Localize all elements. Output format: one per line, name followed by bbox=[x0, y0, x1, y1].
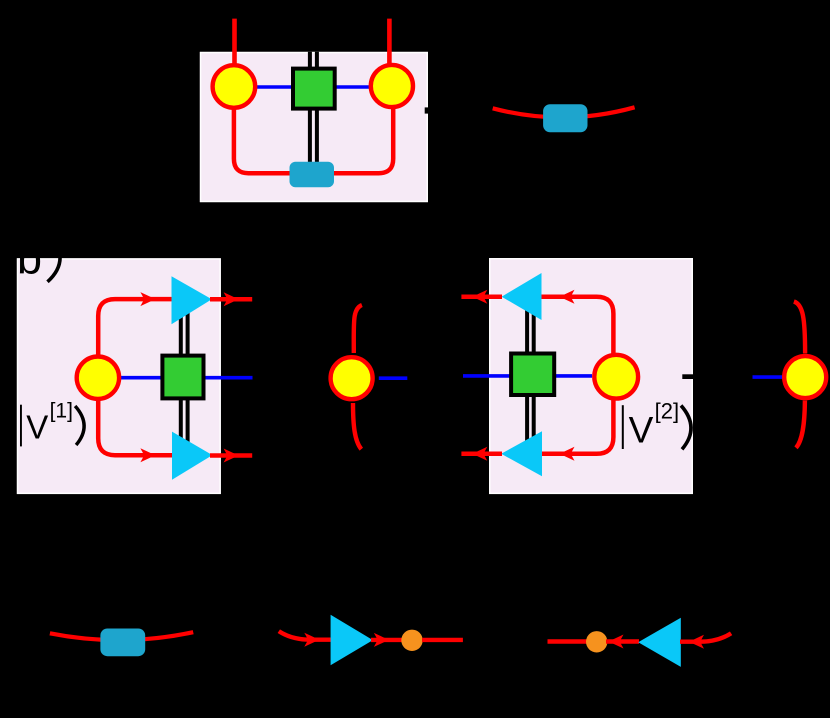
wire red bottom loop bbox=[234, 100, 393, 173]
c-left red arc bbox=[50, 632, 193, 640]
wire red top stub left bbox=[232, 19, 237, 70]
wire black double vertical bbox=[525, 308, 529, 450]
label |V[2]> : bar bbox=[622, 405, 624, 449]
wire red s-curve top bbox=[794, 302, 805, 354]
cyan triangle left-pointing bbox=[638, 618, 681, 667]
yellow circle tensor bbox=[594, 355, 638, 399]
svg-text:V: V bbox=[26, 409, 48, 446]
yellow circle tensor bbox=[77, 357, 119, 399]
wire blue horizontal bbox=[98, 376, 253, 380]
panel b2 (pink box) bbox=[489, 258, 693, 494]
equation right of a: red arc bbox=[493, 107, 635, 117]
svg-text:[2]: [2] bbox=[655, 398, 679, 423]
yellow circle tensor left bbox=[213, 65, 256, 108]
panel a (pink box) bbox=[200, 52, 428, 202]
wire red s-curve top bbox=[354, 305, 362, 353]
arrowhead right tip to dot bbox=[374, 633, 389, 647]
arrowhead left dot to triangle bbox=[609, 635, 624, 649]
green square tensor bbox=[162, 356, 203, 399]
label |V[1]> : paren bbox=[75, 406, 84, 445]
cyan triangle top (left-pointing) bbox=[502, 273, 542, 320]
arrowhead right on top curve bbox=[140, 292, 155, 306]
cyan triangle right-pointing bbox=[331, 615, 373, 666]
wire black double vertical bbox=[179, 300, 183, 456]
wire red dot to triangle bbox=[606, 639, 639, 643]
wire red out of dot bbox=[422, 638, 463, 642]
equation right of a: cyan rounded box bbox=[543, 104, 587, 132]
wire blue into panel bbox=[463, 374, 592, 378]
yellow circle lone middle bbox=[331, 357, 373, 399]
wire blue stub bbox=[753, 375, 785, 379]
c-middle red lead-in bbox=[279, 631, 331, 640]
cyan rounded box bbox=[290, 162, 335, 188]
cyan triangle bottom (left-pointing) bbox=[501, 431, 542, 476]
wire red s-curve bottom bbox=[796, 401, 805, 448]
cyan triangle top bbox=[172, 276, 212, 324]
arrowhead right lead-in bbox=[304, 633, 319, 647]
arrowhead right out bottom bbox=[224, 449, 239, 463]
orange dot bbox=[586, 631, 607, 652]
wire red s-curve bottom bbox=[353, 403, 361, 449]
wire red curve top bbox=[540, 297, 614, 358]
black plus tick at panel edge bbox=[682, 374, 694, 379]
c-right red lead-in from right bbox=[680, 633, 731, 641]
wire red out top bbox=[210, 297, 252, 302]
arrowhead right on bottom curve bbox=[140, 448, 155, 462]
arrowhead left on bottom curve bbox=[560, 447, 575, 461]
svg-text:[1]: [1] bbox=[50, 399, 73, 422]
wire red curve bottom bbox=[540, 395, 614, 454]
svg-text:V: V bbox=[629, 409, 654, 450]
green square tensor bbox=[511, 354, 554, 396]
wire red top stub right bbox=[387, 19, 392, 70]
arrowhead left lead-in bbox=[689, 635, 704, 649]
wire red out bottom bbox=[210, 453, 252, 458]
panel b1 (pink box) bbox=[17, 258, 221, 494]
orange dot bbox=[401, 630, 422, 651]
svg-text:b: b bbox=[17, 233, 42, 284]
arrowhead right out top bbox=[224, 292, 239, 306]
wire red bottom curve bbox=[98, 390, 174, 455]
wire black double vertical bbox=[308, 52, 312, 175]
c-left cyan rounded box bbox=[100, 629, 145, 657]
wire red out top bbox=[461, 294, 502, 299]
wire red top curve bbox=[98, 299, 174, 365]
label |V[2]> : paren bbox=[681, 406, 691, 450]
c-right wire red left bbox=[548, 639, 588, 643]
green square tensor bbox=[293, 69, 335, 109]
label |V[1]> : bar bbox=[20, 405, 22, 447]
wire red tip to dot bbox=[371, 638, 403, 642]
yellow circle tensor right bbox=[371, 65, 413, 107]
wire red out bottom bbox=[461, 452, 502, 457]
arrowhead left out bottom bbox=[472, 447, 487, 461]
cyan triangle bottom bbox=[172, 432, 212, 480]
wire blue stub right of lone circle bbox=[379, 376, 408, 380]
black equals tick at panel edge bbox=[425, 107, 432, 113]
wire blue horizontal bbox=[234, 85, 392, 89]
arrowhead left out top bbox=[472, 290, 487, 304]
arrowhead left on top curve bbox=[560, 290, 575, 304]
yellow circle lone right bbox=[784, 356, 826, 398]
label b) : paren bbox=[48, 248, 61, 282]
